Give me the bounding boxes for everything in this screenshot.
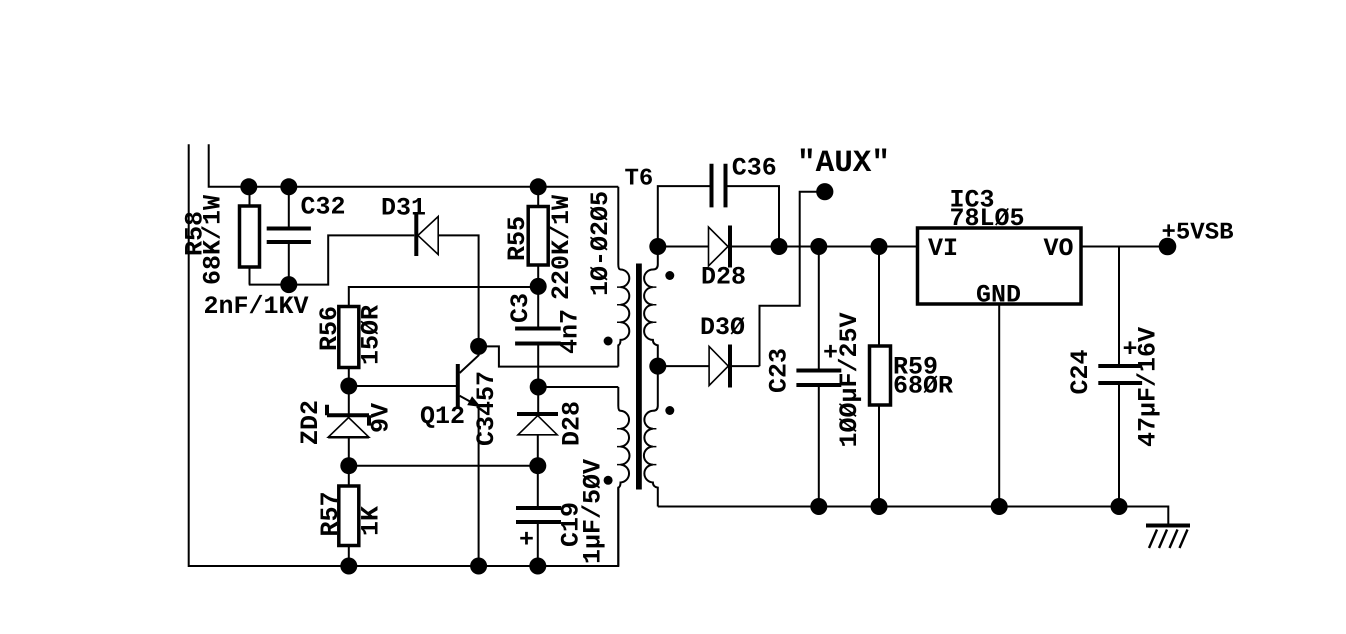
node emitter bottom rail: [470, 558, 487, 575]
wire C24 top stub: [1118, 247, 1120, 367]
svg-text:R55: R55: [503, 216, 532, 261]
wire D30 cathode to AUX jog: [732, 365, 760, 367]
node C32 bottom: [280, 276, 297, 293]
svg-text:C3457: C3457: [472, 371, 501, 446]
op-amp U1 (IC3 78L05 regulator box): [918, 186, 1082, 310]
svg-text:1ØØµF/25V: 1ØØµF/25V: [835, 312, 864, 447]
wire collector jog to primary winding bottom: [479, 346, 619, 366]
svg-text:+: +: [519, 526, 534, 555]
wire feedback node to lower primary winding top: [538, 386, 618, 388]
svg-text:D31: D31: [381, 194, 426, 223]
node ZD2 bottom: [340, 457, 357, 474]
node C19 bottom rail: [529, 558, 546, 575]
wire secondary top node to C36 left: [658, 186, 710, 246]
svg-text:4n7: 4n7: [556, 309, 585, 354]
wire C24 bottom stub: [1118, 383, 1120, 507]
wire R59 top stub: [878, 247, 880, 347]
capacitor C23: [765, 312, 865, 447]
svg-text:"AUX": "AUX": [797, 146, 890, 181]
diode D30: [700, 313, 745, 388]
svg-text:1K: 1K: [357, 506, 386, 536]
capacitor C24: [1066, 327, 1163, 447]
svg-text:D3Ø: D3Ø: [700, 313, 745, 342]
node R55 bottom: [530, 278, 547, 295]
wire R56 bottom stub: [348, 368, 350, 387]
wire feedback node down to D28 cathode: [537, 387, 539, 414]
svg-text:1Ø-Ø2Ø5: 1Ø-Ø2Ø5: [586, 191, 615, 296]
node GND pin ground: [991, 498, 1008, 515]
svg-text:R57: R57: [316, 491, 345, 536]
transformer T6 phase dot secondary upper: [665, 271, 674, 280]
capacitor C19: [516, 459, 608, 564]
wire C23 top stub: [818, 247, 820, 371]
node secondary top: [649, 238, 666, 255]
wire left frame vertical and primary bottom rail: [189, 144, 619, 566]
svg-text:C3: C3: [506, 293, 535, 323]
node C36 right D28 cathode: [771, 238, 788, 255]
node D31 collector: [470, 338, 487, 355]
svg-text:68K/1W: 68K/1W: [199, 195, 228, 285]
svg-text:GND: GND: [976, 281, 1021, 310]
node R58 top: [240, 178, 257, 195]
svg-text:15ØR: 15ØR: [357, 305, 386, 365]
svg-text:2nF/1KV: 2nF/1KV: [204, 292, 309, 321]
transformer T6 phase dot primary lower: [604, 476, 613, 485]
wire IC3 GND pin: [998, 304, 1000, 507]
node R55 top: [530, 178, 547, 195]
wire D31 anode to collector node: [438, 235, 478, 338]
wire transformer mid tap to D30 anode: [658, 365, 709, 367]
wire R55 bottom stub to C3 top: [537, 265, 539, 329]
node C23 ground: [810, 498, 827, 515]
resistor R59: [870, 346, 954, 405]
transformer T6 primary lower winding: [618, 387, 629, 566]
svg-text:+5VSB: +5VSB: [1162, 220, 1234, 247]
diode D31: [381, 194, 438, 257]
wire R59 bottom stub: [878, 405, 880, 507]
wire top feed stub and top horizontal rail: [209, 144, 619, 187]
node D28 anode C19 top: [529, 457, 546, 474]
node C32 top: [280, 178, 297, 195]
svg-text:Q12: Q12: [420, 402, 465, 431]
wire C3 bottom to feedback node: [537, 344, 539, 388]
transformer T6 phase dot secondary lower: [665, 406, 674, 415]
node R59 ground: [871, 498, 888, 515]
node transformer mid tap: [649, 358, 666, 375]
svg-text:R56: R56: [315, 306, 344, 351]
node AUX terminal: [816, 183, 833, 200]
svg-text:C36: C36: [732, 154, 777, 183]
svg-text:VO: VO: [1044, 234, 1074, 263]
wire VO to +5VSB: [1081, 246, 1159, 248]
transistor Q2 (Q12): [420, 346, 501, 446]
node +5VSB terminal: [1159, 238, 1177, 256]
wire D28 anode to C19 top: [537, 435, 539, 508]
svg-text:9V: 9V: [367, 403, 396, 433]
resistor R55: [503, 195, 576, 300]
node junction dots: [240, 178, 1127, 574]
capacitor C3: [506, 293, 585, 354]
node R57 bottom rail: [340, 558, 357, 575]
wire lower link ZD2 node to D28 anode node: [349, 465, 538, 467]
node ZD2 top: [340, 378, 357, 395]
diode D28 top: [701, 226, 746, 292]
svg-text:47µF/16V: 47µF/16V: [1134, 327, 1163, 447]
node C23 top: [810, 238, 827, 255]
svg-text:D28: D28: [701, 263, 746, 292]
transformer T6 secondary upper winding: [644, 247, 658, 367]
transformer T6 primary upper winding: [618, 187, 629, 367]
zener diode ZD2: [296, 400, 396, 445]
ground: [1146, 526, 1190, 549]
capacitor C36: [712, 154, 777, 208]
transformer T6 phase dot primary upper: [604, 337, 613, 346]
wire R58/C32 bottom link to D31 cathode: [249, 235, 414, 284]
wire Q12 emitter down to bottom rail: [478, 407, 480, 566]
svg-text:D28: D28: [558, 401, 587, 446]
wire C23 bottom stub: [818, 385, 820, 507]
svg-text:T6: T6: [625, 166, 654, 193]
svg-text:1µF/5ØV: 1µF/5ØV: [579, 459, 608, 564]
wire secondary ground rail: [658, 507, 1169, 526]
svg-text:C24: C24: [1066, 349, 1095, 394]
wire base net ZD2 top to Q12 base: [349, 385, 456, 387]
svg-text:78LØ5: 78LØ5: [950, 204, 1025, 233]
svg-text:68ØR: 68ØR: [893, 372, 953, 401]
node C24 ground: [1111, 498, 1128, 515]
svg-text:VI: VI: [928, 234, 958, 263]
resistor R56: [315, 305, 386, 368]
wire C36 right to diode output node: [728, 186, 780, 246]
wire ZD2 bottom to R57 top: [348, 437, 350, 486]
svg-text:220K/1W: 220K/1W: [547, 195, 576, 300]
transformer T6 core: [636, 264, 642, 490]
wire secondary top node to D28 anode: [658, 246, 709, 248]
wire C19 bottom stub: [537, 522, 539, 566]
capacitor C32: [204, 187, 346, 321]
resistor R57: [316, 486, 386, 546]
transformer T6 secondary lower winding: [644, 366, 658, 506]
wire R55 top stub: [537, 187, 539, 207]
svg-text:C32: C32: [301, 193, 346, 222]
wire D28 cathode to IC3 VI: [732, 246, 918, 248]
wire R57 bottom stub: [348, 546, 350, 567]
diode D28 lower: [517, 401, 587, 446]
node feedback C3 bottom: [530, 379, 547, 396]
wire ZD2 top stub: [348, 386, 350, 416]
node R59 top: [871, 238, 888, 255]
svg-text:C23: C23: [765, 348, 794, 393]
wire R56 top to R55 bottom node: [349, 287, 538, 307]
resistor R58: [181, 187, 260, 285]
svg-text:ZD2: ZD2: [296, 400, 325, 445]
wire AUX stub: [760, 192, 817, 366]
